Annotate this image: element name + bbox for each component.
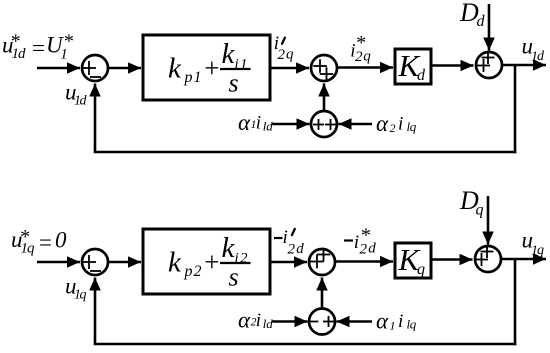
svg-text:2: 2 [355,49,363,65]
svg-text:d: d [417,67,426,84]
svg-text:q: q [476,202,484,219]
svg-text:q: q [80,288,87,303]
svg-text:1: 1 [390,319,396,333]
svg-text:i: i [398,114,403,135]
svg-text:d: d [80,94,88,109]
svg-text:d: d [368,241,376,257]
svg-text:q: q [537,243,544,258]
svg-text:d: d [266,316,273,331]
svg-text:2: 2 [360,242,368,258]
svg-text:2: 2 [194,263,202,280]
svg-text:k: k [168,53,182,85]
svg-text:k: k [222,38,236,70]
svg-text:=: = [38,230,54,255]
svg-text:d: d [477,13,486,30]
svg-text:p: p [184,263,193,280]
svg-text:2: 2 [390,121,396,135]
svg-text:α: α [238,110,251,135]
svg-text:i: i [256,310,261,331]
svg-text:p: p [184,69,193,86]
svg-text:2: 2 [288,242,296,258]
svg-text:d: d [18,46,26,62]
svg-text:q: q [27,241,35,257]
svg-text:*: * [63,31,73,53]
svg-text:d: d [296,241,304,257]
svg-text:d: d [266,118,273,133]
svg-text:d: d [537,49,545,64]
svg-text:s: s [229,69,239,98]
svg-text:k: k [222,232,236,264]
svg-text:q: q [286,47,294,63]
svg-text:α: α [376,309,389,334]
svg-text:+: + [203,247,221,277]
svg-text:2: 2 [278,47,286,63]
svg-text:q: q [363,49,371,65]
svg-text:q: q [417,261,425,278]
svg-text:q: q [410,317,417,332]
svg-text:s: s [229,263,239,292]
svg-text:i: i [256,113,261,134]
svg-text:1: 1 [194,69,202,86]
svg-text:α: α [238,308,251,333]
svg-text:α: α [376,111,389,136]
svg-text:i: i [354,232,359,253]
svg-text:q: q [410,119,417,134]
svg-text:i: i [398,311,403,332]
svg-text:=: = [31,36,47,61]
svg-text:0: 0 [55,228,67,253]
svg-text:+: + [203,53,221,83]
svg-text:k: k [168,247,182,279]
